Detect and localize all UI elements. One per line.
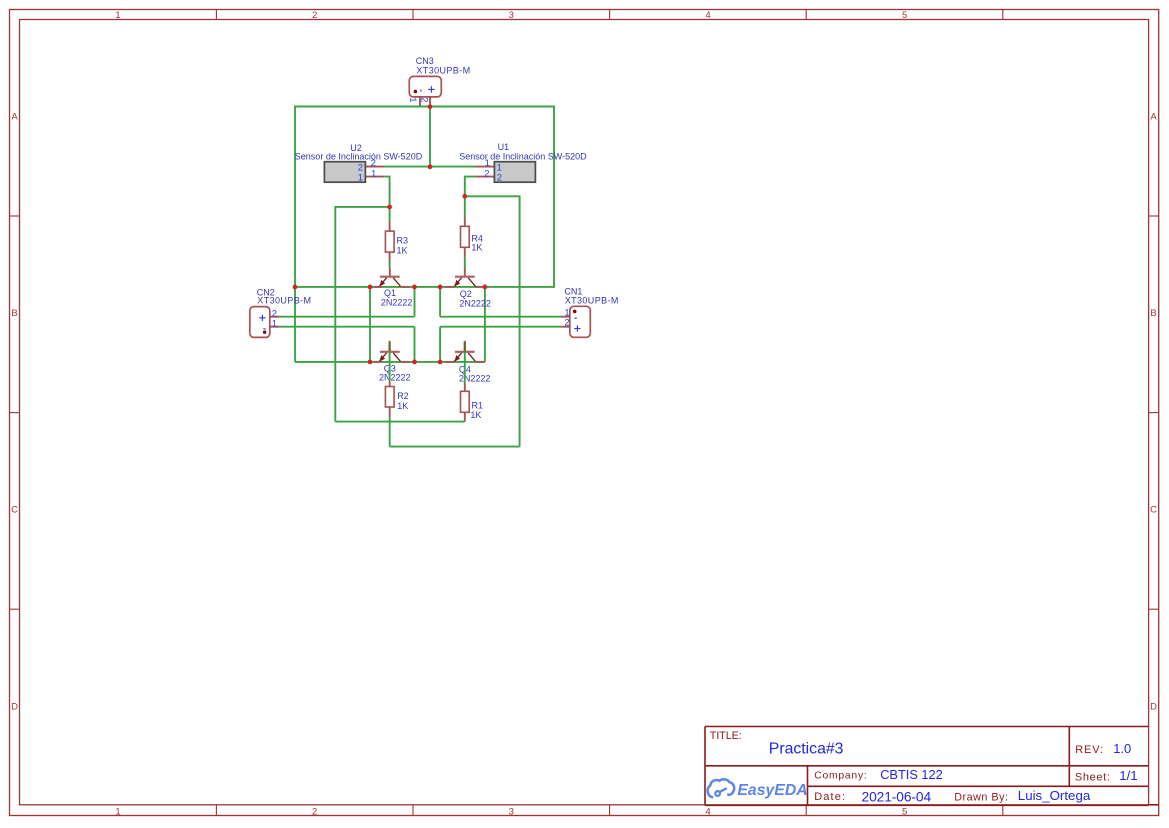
wire R3 junction to resistor bbox=[389, 207, 391, 223]
wire R4 bottom to Q2 base bbox=[464, 257, 466, 268]
ruler letters left bbox=[11, 111, 18, 712]
svg-text:Sensor de Inclinación SW-520D: Sensor de Inclinación SW-520D bbox=[459, 152, 587, 162]
svg-text:XT30UPB-M: XT30UPB-M bbox=[565, 295, 619, 305]
svg-text:A: A bbox=[1150, 111, 1157, 122]
junction Q2 collector bbox=[483, 285, 488, 290]
svg-text:Date:: Date: bbox=[814, 791, 846, 803]
svg-text:Company:: Company: bbox=[814, 771, 867, 782]
svg-text:R2: R2 bbox=[397, 391, 409, 401]
wire CN2 pin2 row bbox=[279, 316, 414, 318]
ruler ticks bottom bbox=[216, 805, 1002, 816]
wire Q3 collector riser bbox=[414, 327, 416, 362]
svg-text:2N2222: 2N2222 bbox=[381, 298, 413, 308]
wire node R4 top to right drop bbox=[465, 196, 520, 446]
junction at CN3 pin2 bbox=[428, 104, 433, 109]
resistor R4 bbox=[461, 217, 470, 257]
svg-text:1: 1 bbox=[358, 172, 363, 183]
svg-text:XT30UPB-M: XT30UPB-M bbox=[257, 296, 311, 306]
resistor R3 bbox=[385, 222, 394, 261]
ruler numbers bottom bbox=[115, 806, 907, 817]
wire CN3 to sensor row bbox=[429, 107, 431, 167]
svg-text:5: 5 bbox=[902, 10, 907, 21]
ruler ticks top bbox=[216, 10, 1002, 20]
svg-text:R1: R1 bbox=[472, 401, 484, 411]
junction left rail B row bbox=[293, 285, 298, 290]
wire node A vertical bbox=[369, 287, 371, 362]
svg-text:1: 1 bbox=[115, 10, 120, 21]
svg-text:U1: U1 bbox=[498, 142, 510, 152]
sensor U1 SW-520D bbox=[475, 162, 535, 183]
svg-text:R3: R3 bbox=[397, 236, 409, 246]
svg-text:2: 2 bbox=[564, 318, 569, 329]
svg-text:2: 2 bbox=[484, 168, 489, 179]
svg-text:A: A bbox=[11, 111, 18, 122]
svg-text:1/1: 1/1 bbox=[1119, 768, 1137, 783]
svg-text:1: 1 bbox=[371, 168, 376, 179]
connector CN2 XT30UPB-M bbox=[250, 307, 279, 338]
wire Q1 collector drop bbox=[414, 287, 416, 317]
svg-text:2: 2 bbox=[497, 172, 502, 183]
wire Q4 base to R1 bbox=[464, 341, 466, 383]
svg-text:Luis_Ortega: Luis_Ortega bbox=[1018, 788, 1091, 803]
wire R4 junction to resistor bbox=[464, 196, 466, 217]
ruler ticks left bbox=[10, 216, 20, 609]
wire R3 bottom to Q1 base bbox=[389, 261, 391, 268]
svg-text:CN3: CN3 bbox=[416, 56, 434, 66]
transistor Q1 2N2222 bbox=[374, 268, 410, 287]
svg-text:REV:: REV: bbox=[1075, 744, 1104, 756]
transistor Q3 2N2222 bbox=[374, 342, 410, 362]
EasyEDA logo cloud bbox=[708, 779, 735, 797]
connector CN3 XT30UPB-M bbox=[409, 76, 441, 106]
wire Q2-Q4 right link bbox=[484, 287, 486, 362]
svg-text:Sheet:: Sheet: bbox=[1075, 771, 1111, 783]
svg-text:1: 1 bbox=[407, 97, 418, 102]
junction Q3 collector bbox=[412, 360, 417, 365]
transistor Q4 2N2222 bbox=[445, 342, 485, 362]
svg-text:3: 3 bbox=[509, 10, 514, 21]
transistor Q2 2N2222 bbox=[445, 268, 485, 287]
svg-text:2N2222: 2N2222 bbox=[459, 374, 491, 384]
svg-text:Drawn By:: Drawn By: bbox=[954, 791, 1008, 803]
svg-text:1K: 1K bbox=[397, 401, 408, 411]
wire bottom return row bbox=[390, 446, 520, 448]
svg-text:B: B bbox=[11, 308, 17, 319]
svg-text:EasyEDA: EasyEDA bbox=[737, 782, 807, 799]
junction Q2 emitter bbox=[438, 285, 443, 290]
svg-text:XT30UPB-M: XT30UPB-M bbox=[416, 66, 470, 76]
wire Q4 emitter riser bbox=[439, 327, 441, 362]
svg-text:Sensor de Inclinación SW-520D: Sensor de Inclinación SW-520D bbox=[295, 152, 423, 162]
title block lines bbox=[705, 727, 1159, 806]
svg-text:CBTIS 122: CBTIS 122 bbox=[880, 767, 943, 782]
wire lower transistor rail bbox=[295, 361, 485, 363]
sensor U2 SW-520D bbox=[324, 162, 384, 183]
svg-text:2021-06-04: 2021-06-04 bbox=[862, 789, 932, 804]
junction node R3 top bbox=[387, 205, 392, 210]
wire CN1 pin2 row bbox=[440, 326, 560, 328]
svg-text:2: 2 bbox=[419, 97, 430, 102]
wire R3 top branch bbox=[335, 207, 389, 422]
wire CN2 pin1 row bbox=[279, 326, 414, 328]
svg-text:2N2222: 2N2222 bbox=[459, 298, 491, 308]
svg-text:2N2222: 2N2222 bbox=[379, 373, 411, 383]
ruler numbers top bbox=[115, 10, 907, 21]
connector CN1 XT30UPB-M bbox=[560, 306, 590, 337]
wire upper transistor rail bbox=[295, 286, 554, 288]
junction Q1 collector bbox=[412, 285, 417, 290]
wire R2 bottom drop bbox=[389, 417, 391, 446]
svg-text:Q1: Q1 bbox=[384, 288, 396, 298]
svg-text:5: 5 bbox=[902, 806, 907, 817]
svg-text:4: 4 bbox=[705, 10, 710, 21]
junction node R4 top bbox=[462, 194, 467, 199]
svg-text:1: 1 bbox=[115, 806, 120, 817]
junction Q3 emitter bbox=[368, 360, 373, 365]
resistor R2 bbox=[385, 381, 394, 417]
wire Q2 emitter drop bbox=[439, 287, 441, 317]
resistor R1 bbox=[461, 383, 470, 422]
wire top rail bbox=[294, 106, 554, 108]
svg-text:C: C bbox=[1150, 505, 1157, 516]
ruler ticks right bbox=[1149, 216, 1159, 609]
svg-text:1: 1 bbox=[272, 318, 277, 329]
svg-text:D: D bbox=[11, 701, 18, 712]
svg-text:TITLE:: TITLE: bbox=[710, 730, 742, 742]
svg-text:1.0: 1.0 bbox=[1113, 741, 1131, 756]
svg-text:1K: 1K bbox=[470, 410, 481, 420]
junction Q1 emitter bbox=[368, 285, 373, 290]
wire left rail vertical bbox=[294, 106, 296, 288]
wire Q3 base to R2 bbox=[389, 341, 391, 382]
svg-text:1K: 1K bbox=[397, 245, 408, 255]
Q4 base pin wire overlap bbox=[464, 342, 466, 351]
wire right rail vertical bbox=[553, 106, 555, 288]
svg-text:2: 2 bbox=[312, 806, 317, 817]
wire sensor row U2 pin2 to U1 pin1 bbox=[384, 166, 475, 168]
junction at sensor row bbox=[428, 164, 433, 169]
svg-text:1K: 1K bbox=[471, 243, 482, 253]
wire R1 bottom row bbox=[335, 421, 464, 423]
svg-text:2: 2 bbox=[312, 10, 317, 21]
wire U1 pin2 jog bbox=[465, 177, 475, 197]
ruler letters right bbox=[1150, 111, 1157, 712]
svg-text:C: C bbox=[11, 505, 18, 516]
wire CN1 pin1 row bbox=[440, 316, 560, 318]
junction Q4 emitter bbox=[438, 360, 443, 365]
svg-text:D: D bbox=[1150, 701, 1157, 712]
svg-text:4: 4 bbox=[705, 806, 710, 817]
wire left rail lower vertical bbox=[294, 287, 296, 362]
svg-text:B: B bbox=[1150, 308, 1156, 319]
wire U2 pin1 jog bbox=[384, 177, 389, 207]
svg-text:3: 3 bbox=[509, 806, 514, 817]
Q3 base pin wire overlap bbox=[389, 342, 391, 351]
svg-text:Practica#3: Practica#3 bbox=[769, 740, 844, 757]
